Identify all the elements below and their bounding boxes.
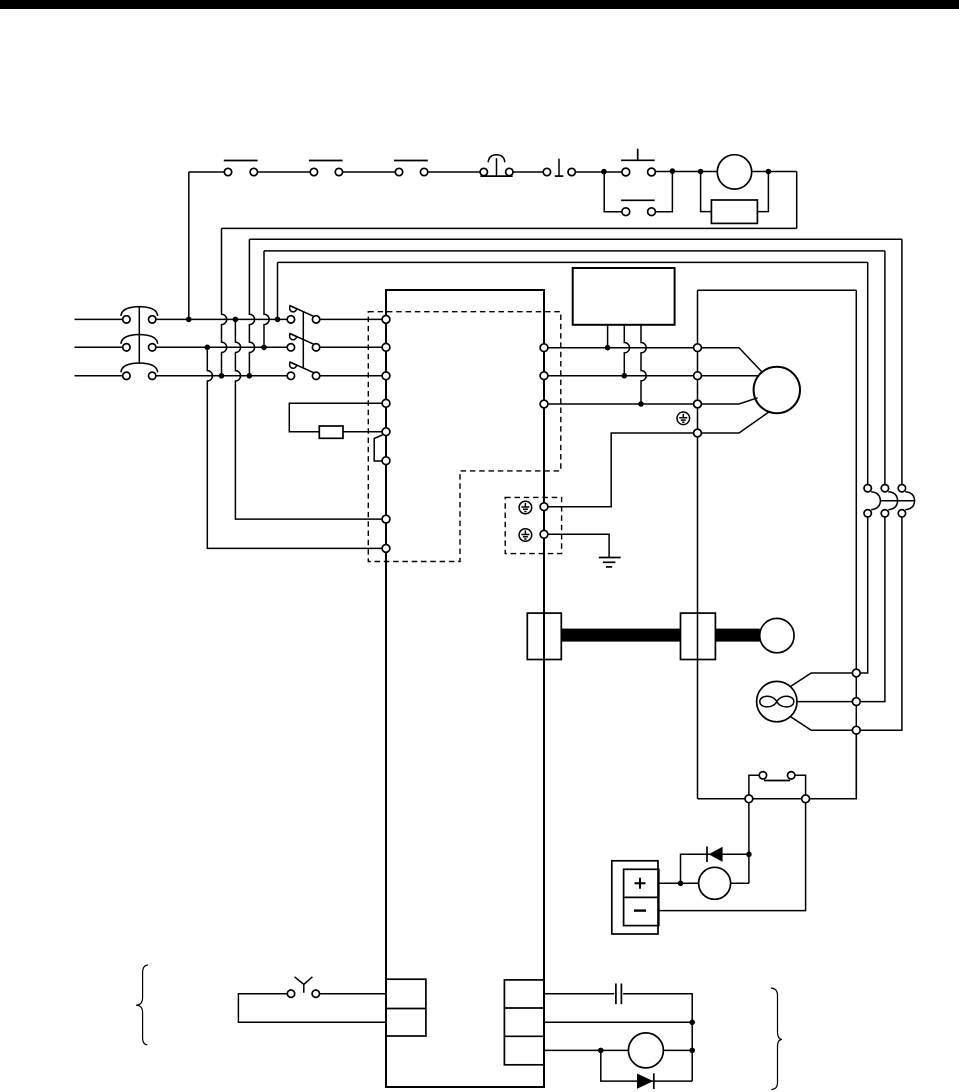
terminal X1:6 xyxy=(382,515,390,523)
wire between contact S4 and S5 xyxy=(513,171,543,173)
terminal X1:7 xyxy=(382,545,390,553)
wire line T1 xyxy=(548,347,694,349)
wire battery plus to motor M2 xyxy=(659,882,699,884)
contact S1 (NC) xyxy=(224,161,258,176)
encoder B1 circle xyxy=(760,618,794,652)
contact S4 emergency stop (mushroom NC) xyxy=(480,155,513,176)
terminal X1:4 xyxy=(382,399,390,407)
terminal lamp 3 xyxy=(852,726,860,734)
wire phase L3 input line xyxy=(75,375,288,377)
terminal X2:1 xyxy=(540,344,548,352)
capacitor C1 xyxy=(616,984,622,1005)
PE symbol circled earth at X2:PE1 xyxy=(519,501,532,514)
node control-tap L1 junction xyxy=(186,317,192,323)
PE symbol circled earth at X2:PE2 xyxy=(519,529,532,542)
terminal X1:2 xyxy=(382,343,390,351)
node diode-motor junction right xyxy=(746,852,752,858)
diode V2 (pointing right) xyxy=(637,1073,654,1089)
wire between contact S5 and contact K1 xyxy=(575,171,622,173)
wire between contact S1 and S2 xyxy=(258,171,311,173)
node bus3-L2 junction xyxy=(261,345,267,351)
lamp E1 (work light) xyxy=(757,681,797,721)
wire U2 lead 2 to line T2 with crossover xyxy=(624,325,629,376)
battery G1 xyxy=(612,861,659,934)
coil K1 (contactor coil circle) xyxy=(717,155,751,189)
contact S3 (NC) xyxy=(394,161,428,176)
wire phase L2 to terminal X1:2 xyxy=(320,346,383,348)
terminal X2:3 xyxy=(540,400,548,408)
terminal X3:2 xyxy=(802,795,810,803)
wire connector line right to lamp column xyxy=(810,734,857,799)
machine enclosure top edge xyxy=(698,289,857,291)
wire bus4 drop to phase L1 xyxy=(277,262,279,319)
wire motor M2 to right node xyxy=(731,882,749,884)
breaker Q2 linkage xyxy=(880,500,914,502)
breaker Q2 pole 3 xyxy=(898,485,914,518)
wire motor lead W xyxy=(701,398,757,404)
terminal lamp 1 xyxy=(852,669,860,677)
breaker Q1 pole 3 xyxy=(121,363,158,379)
breaker Q1 pole 1 xyxy=(121,307,158,323)
wire battery minus return xyxy=(659,803,806,911)
brace right (accessory group) xyxy=(771,988,782,1090)
wire control supply tap from phase L1 xyxy=(188,172,190,319)
wire phase L1 to terminal X1:1 xyxy=(320,318,383,320)
node tap-L2 junction xyxy=(205,345,211,351)
wire control row left segment xyxy=(189,171,225,173)
motor M2 (DC pump motor) xyxy=(699,867,731,899)
wire bus4 lamp feed (phase1) xyxy=(278,261,868,263)
wire motor M3 to right column xyxy=(663,1049,692,1051)
controller U1 enclosure box xyxy=(386,290,544,1087)
wire bus2 lower drop to lamp terminal 3 xyxy=(860,517,902,730)
terminal X2:2 xyxy=(540,372,548,380)
node B junction right of contact K1 xyxy=(670,168,676,174)
breaker Q2 pole 2 xyxy=(881,485,897,518)
contact S2 (NC) xyxy=(309,161,343,176)
wire bus1 control return xyxy=(222,227,797,229)
wire right side of lower contact xyxy=(655,172,672,212)
terminal motor PE xyxy=(694,429,702,437)
wire motor lead V xyxy=(701,375,758,377)
node A junction left of contact K1 xyxy=(601,169,607,175)
terminal lamp 2 xyxy=(852,698,860,706)
node bus1-L3 junction xyxy=(219,373,225,379)
dashed boundary PE terminals xyxy=(505,497,561,553)
node bus2-L3 junction xyxy=(247,373,253,379)
wire bus3 lower drop to lamp terminal 2 xyxy=(860,517,885,702)
contactor K1 pole 1 xyxy=(287,306,320,323)
dashed boundary main (controller field wiring) xyxy=(368,312,561,562)
terminal X2:PE1 xyxy=(540,503,548,511)
shaft coupling box right xyxy=(681,613,716,659)
wire between contact S2 and S3 xyxy=(343,171,396,173)
terminal X2:PE2 xyxy=(540,530,548,538)
terminal X1:3 xyxy=(382,372,390,380)
contactor K1 pole 3 xyxy=(287,362,320,379)
pedal switch S6 contacts xyxy=(287,977,319,998)
contactor K1 pole 2 xyxy=(287,334,320,351)
wire phase L3 to terminal X1:3 xyxy=(320,375,383,377)
wire X5:3 to motor M3 xyxy=(544,1049,628,1051)
node U2-T3 junction xyxy=(638,401,644,407)
wire phase L1 input line xyxy=(75,318,288,320)
node U2-T1 junction xyxy=(605,345,611,351)
wire motor lead PE xyxy=(701,412,769,433)
wire lamp lead 1 xyxy=(790,673,853,687)
wire lamp lead 2 xyxy=(797,701,852,703)
wire connector line middle xyxy=(753,798,802,800)
jumper link between X1:5a and X1:5b xyxy=(374,435,382,461)
resistor R1 (economy resistor parallel to coil) xyxy=(711,200,757,223)
wire bus2 lamp feed (phase3) xyxy=(249,238,902,240)
terminal motor U xyxy=(694,344,702,352)
wire line T3 xyxy=(548,403,694,405)
motor M1 (3-phase spindle motor) xyxy=(754,367,800,413)
terminal motor W xyxy=(694,400,702,408)
wire diode V2 branch xyxy=(601,1050,692,1081)
wire bus2 drop to phase L3 with crossovers xyxy=(249,239,254,376)
wire lamp lead 3 xyxy=(790,716,853,730)
node C junction before coil xyxy=(698,169,704,175)
motor M3 (coolant pump) xyxy=(628,1033,663,1068)
pedal switch S6 cable loop xyxy=(238,994,386,1023)
node D junction after coil xyxy=(766,169,772,175)
terminal X1:5b xyxy=(382,457,390,465)
wire motor lead U xyxy=(701,348,762,372)
wire X5:1 to capacitor C1 xyxy=(544,993,614,995)
wire tap phase L1 down to terminal X1:5 with crossovers xyxy=(235,319,382,519)
terminal X3:1 xyxy=(745,795,753,803)
wire U2 lead 1 to line T1 xyxy=(607,325,609,348)
wire capacitor C1 to right column xyxy=(623,994,692,1081)
terminal block X5 inside controller right edge xyxy=(504,980,544,1065)
wire connector line left xyxy=(698,798,746,800)
machine enclosure left edge xyxy=(697,290,699,799)
terminal block X4 on controller left edge xyxy=(386,979,426,1036)
breaker Q1 pole 2 xyxy=(121,335,158,351)
resistor R2 (braking resistor) xyxy=(319,426,343,438)
wire bus1 drop to phase L3 with crossovers xyxy=(222,228,227,375)
breaker Q2 pole 1 xyxy=(864,485,880,518)
wire right drop to resistor R1 xyxy=(757,172,768,212)
contactor K1 linkage xyxy=(302,312,304,368)
wire bus2 right drop upper xyxy=(901,239,903,484)
node X5:2 junction xyxy=(689,1020,695,1026)
wire pedal top to terminal X4:1 xyxy=(320,993,386,995)
terminal X1:1 xyxy=(382,316,390,324)
wire from contact K1 to coil branch xyxy=(655,171,797,173)
wire phase L2 input line xyxy=(75,346,288,348)
wire bus3 lamp feed (phase2) xyxy=(264,250,885,252)
connector X3 bridge contact xyxy=(749,772,806,795)
shaft bar right xyxy=(715,629,759,642)
relay box U2 (brake module) xyxy=(573,268,675,325)
wire bus3 drop to phase L2 with crossover xyxy=(264,251,269,347)
ground earth symbol xyxy=(599,558,621,567)
wire bus4 lower drop to lamp terminal 1 xyxy=(860,517,868,673)
wire PE terminal X2:PE2 to earth xyxy=(548,534,609,557)
wire U2 lead 3 to line T3 with crossovers xyxy=(641,325,646,404)
breaker Q1 linkage xyxy=(138,307,140,363)
wire resistor loop from terminal X1:4 xyxy=(289,403,382,431)
wire bus3 right drop upper xyxy=(884,251,886,485)
wire diode branch xyxy=(681,854,749,883)
node M3 right junction xyxy=(689,1048,695,1054)
wire X5:2 to right column xyxy=(544,1021,692,1023)
terminal motor V xyxy=(694,372,702,380)
terminal X1:5a xyxy=(382,428,390,436)
wire PE from motor frame to terminal X2:PE1 xyxy=(548,433,694,507)
wire between contact S3 and S4 xyxy=(428,171,480,173)
wire left drop to resistor R1 xyxy=(701,172,712,212)
node M3 left junction xyxy=(598,1048,604,1054)
header black bar xyxy=(0,0,959,9)
contact K1 upper (with actuator bar) xyxy=(621,149,655,176)
wire X3:1 down to diode node xyxy=(748,803,750,884)
node tap-L1 junction xyxy=(233,317,239,323)
shaft coupling box left xyxy=(527,613,561,659)
contact K1 lower (NC parallel) xyxy=(621,200,655,215)
node U2-T2 junction xyxy=(622,373,628,379)
diode V1 (flyback, pointing left) xyxy=(707,847,723,863)
wire bus4 right drop upper xyxy=(867,262,869,484)
brace left (pedal group) xyxy=(136,965,148,1045)
wire lower branch of K1 xyxy=(604,172,622,212)
contact S5 start push-button (NO) xyxy=(543,159,575,176)
PE symbol circled earth at motor xyxy=(677,412,690,425)
wire line T2 xyxy=(548,375,694,377)
machine enclosure right edge xyxy=(855,290,857,799)
shaft bar left xyxy=(561,629,680,642)
node battery-motor junction left xyxy=(678,881,684,887)
wire control row right end down xyxy=(796,172,798,229)
wire tap phase L2 down to terminal X1:6 with crossover xyxy=(207,347,382,548)
node bus4-L1 junction xyxy=(275,317,281,323)
